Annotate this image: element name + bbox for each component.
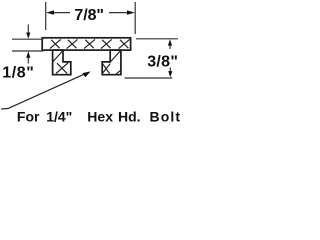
dimension 1/8" top arrow (down) <box>27 25 29 35</box>
dimension 3/8" top arrow (up) <box>169 44 171 49</box>
flange (top plate) <box>42 38 130 50</box>
flange hatch X2 <box>67 39 78 48</box>
right leg (stem + inward foot) <box>102 50 121 75</box>
flange hatch X4 <box>101 39 112 48</box>
left foot hatch X <box>56 63 68 74</box>
dimension 1/8" extension line bottom <box>12 50 43 52</box>
dimension 3/8" extension line top <box>136 38 178 40</box>
flange hatch X1 <box>50 39 61 48</box>
dimension 7/8" extension line left <box>45 2 47 30</box>
flange hatch X3 <box>84 39 95 48</box>
right foot hatch X <box>102 64 110 74</box>
svg-text:7/8": 7/8" <box>74 7 104 24</box>
dimension 3/8" extension line bottom <box>125 77 173 79</box>
flange hatch X5 <box>119 39 130 48</box>
dimension 3/8" bottom arrow (down) <box>169 68 171 73</box>
leader arrow to slot <box>1 73 87 109</box>
dimension 7/8" line right segment with arrowhead <box>109 12 129 14</box>
svg-text:1/8": 1/8" <box>2 64 34 81</box>
left leg (stem + inward foot) <box>53 50 71 75</box>
dimension 7/8" extension line right <box>134 2 136 34</box>
dimension 1/8" bottom arrow (up) <box>27 57 29 64</box>
dimension 7/8" line left segment with arrowhead <box>52 12 70 14</box>
dimension 1/8" extension line top <box>12 38 43 40</box>
right stem hatch <box>111 51 121 62</box>
left stem hatch <box>53 51 63 62</box>
svg-text:3/8": 3/8" <box>147 53 178 70</box>
